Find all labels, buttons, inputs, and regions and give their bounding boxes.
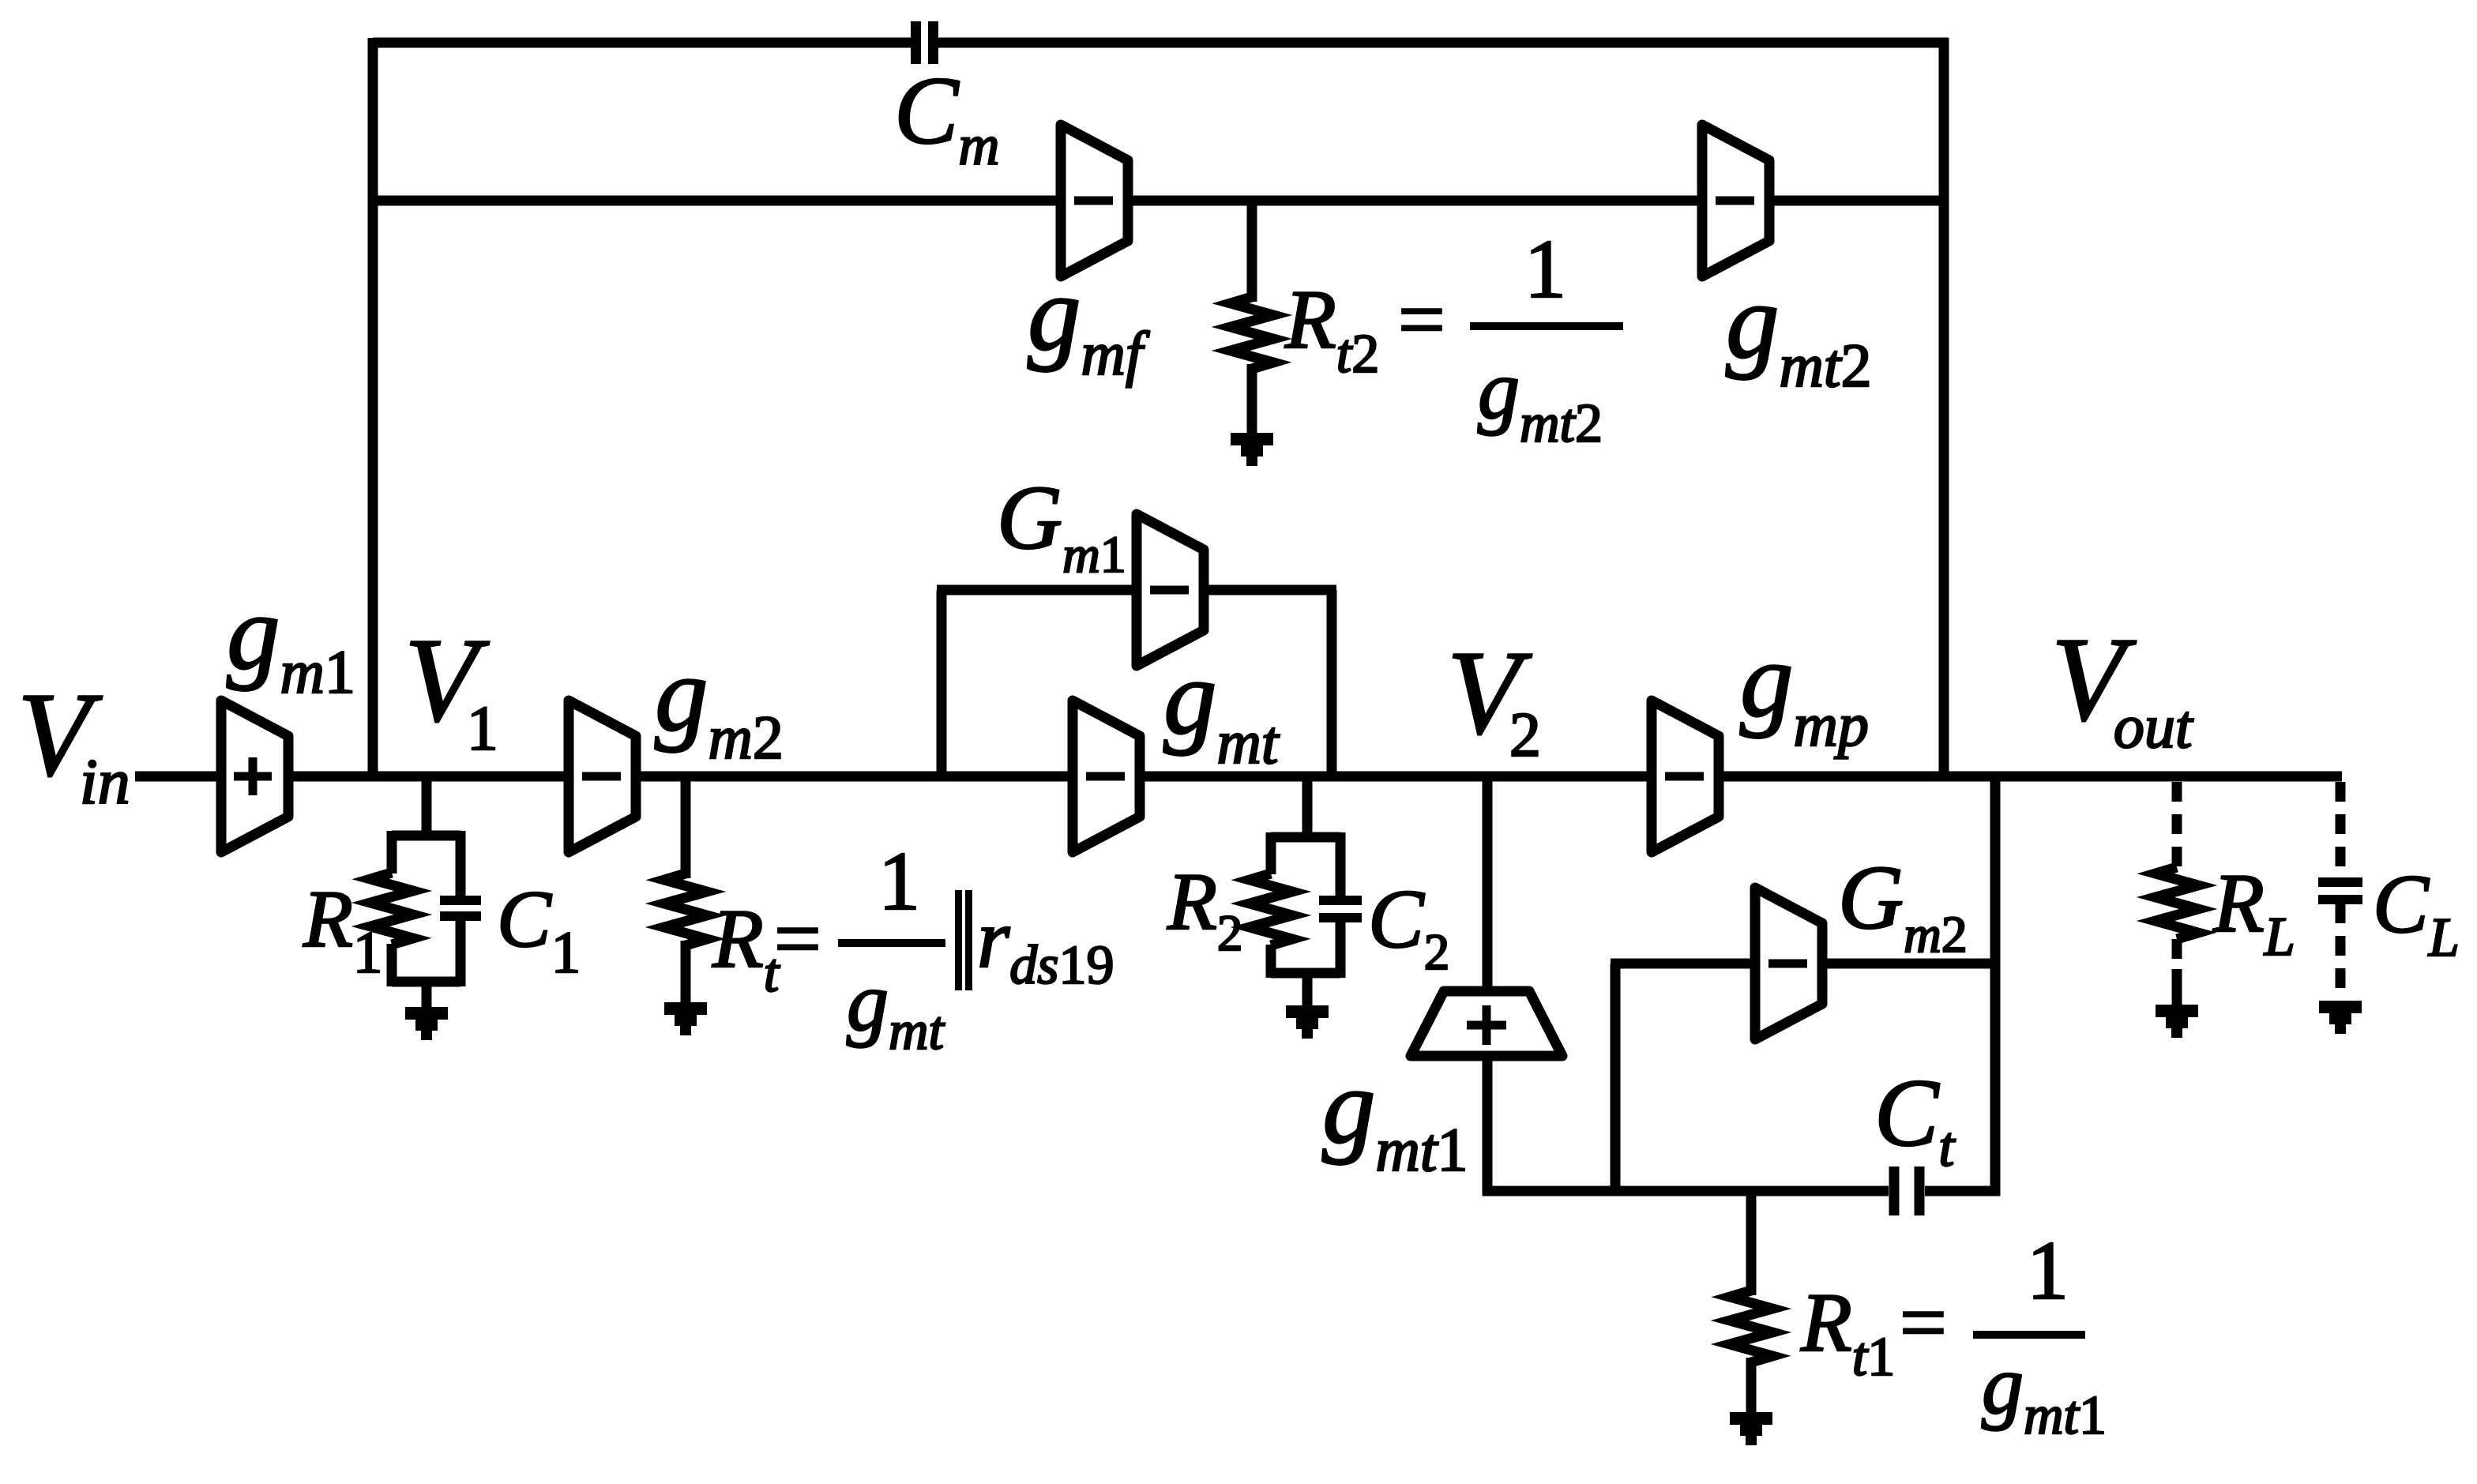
svg-text:=: = [1900,1276,1947,1369]
op-amp Gm2 transconductor [1755,888,1822,1039]
ground below Rt1 [1730,1412,1772,1445]
wire V2 node down to gmt1 [1483,776,1493,994]
wire R1C1 stub [422,776,432,840]
wire left vertical (V1 node to top feedback) [368,38,378,776]
resistor Rt1 [1730,1291,1772,1362]
svg-text:1: 1 [878,835,920,927]
wire bottom line left segment to Ct [1483,1186,1889,1197]
label equation Rt1 = 1/gmt1 [1800,1224,2107,1446]
capacitor Cm plates [911,21,938,64]
ground below Rt [664,1002,707,1035]
wire Rt2 stub [1247,201,1257,302]
wire CL dashed branch lower [2336,904,2346,1004]
resistor RL [2156,867,2198,939]
resistor Rt [664,873,707,945]
svg-text:1: 1 [1524,223,1566,315]
wire Gm1 loop top left segment [937,585,1137,595]
op-amp gmf transconductor [1061,125,1128,276]
wire RL dashed branch upper [2172,782,2182,870]
label equation Rt = 1/gmt || rds19 [712,835,1114,1061]
wire Gm2 loop top left segment [1611,959,1755,969]
op-amp Gm1 transconductor [1137,514,1204,666]
wire Gm1 loop right vertical [1327,590,1337,776]
capacitor Ct plates [1889,1167,1925,1215]
ground below RL [2156,1005,2198,1038]
ground below R1C1 [405,1007,448,1040]
ground below CL [2319,1001,2362,1034]
wire Gm2 loop top right segment [1822,959,1995,969]
op-amp gm2 transconductor [569,701,636,852]
wire Rt2 to ground [1247,364,1257,436]
wire Rt to ground [681,941,691,1005]
op-amp gmt transconductor [1073,701,1140,852]
wire RL dashed branch lower upper part [2172,939,2182,959]
svg-text:=: = [774,892,821,985]
resistor-capacitor box R2 C2 [1250,832,1362,1007]
wire CL dashed branch upper [2336,782,2346,879]
op-amp gmt2 transconductor [1702,125,1769,276]
op-amp gmp transconductor [1652,701,1719,852]
wire second feedback line (gmf to gmt2) [1128,196,1702,206]
wire Gm1 loop top right segment [1204,585,1336,595]
resistor Rt2 [1231,297,1273,369]
wire top feedback line (left segment to Cm) [373,38,911,48]
wire right vertical (Vout node to top feedback) [1939,38,1949,776]
wire R2C2 stub [1302,776,1313,842]
label equation Rt2 = 1/gmt2 [1284,223,1623,454]
ground below Rt2 [1231,433,1273,466]
wire Gm1 loop left vertical [937,590,947,776]
wire top feedback line (Cm to right corner) [938,38,1949,48]
wire Vout node down to Gm2 loop [1990,776,2001,1196]
svg-text:=: = [1398,273,1445,366]
wire Rt stub [681,776,691,878]
wire Gm2 loop left vertical [1611,964,1621,1191]
wire RL dashed branch lower to ground [2172,969,2182,1008]
wire gmt1 output down to bottom line [1483,1056,1493,1196]
ground below R2C2 [1286,1005,1329,1039]
wire Rt1 stub [1746,1191,1757,1295]
wire Rt1 to ground [1746,1358,1757,1415]
wire second feedback line (left segment to gmf) [373,196,1061,206]
op-amp gmt1 transconductor (+ down) [1411,991,1562,1056]
capacitor CL plates [2318,877,2362,904]
svg-text:1: 1 [2027,1224,2069,1317]
wire second feedback line (gmt2 to right vertical) [1769,196,1944,206]
op-amp gm1 transconductor (+) [221,701,288,852]
wire bottom line Ct to right corner [1925,1186,2000,1197]
resistor-capacitor box R1 C1 [370,831,481,1009]
wire main signal line Vin to Vout [135,772,2342,782]
